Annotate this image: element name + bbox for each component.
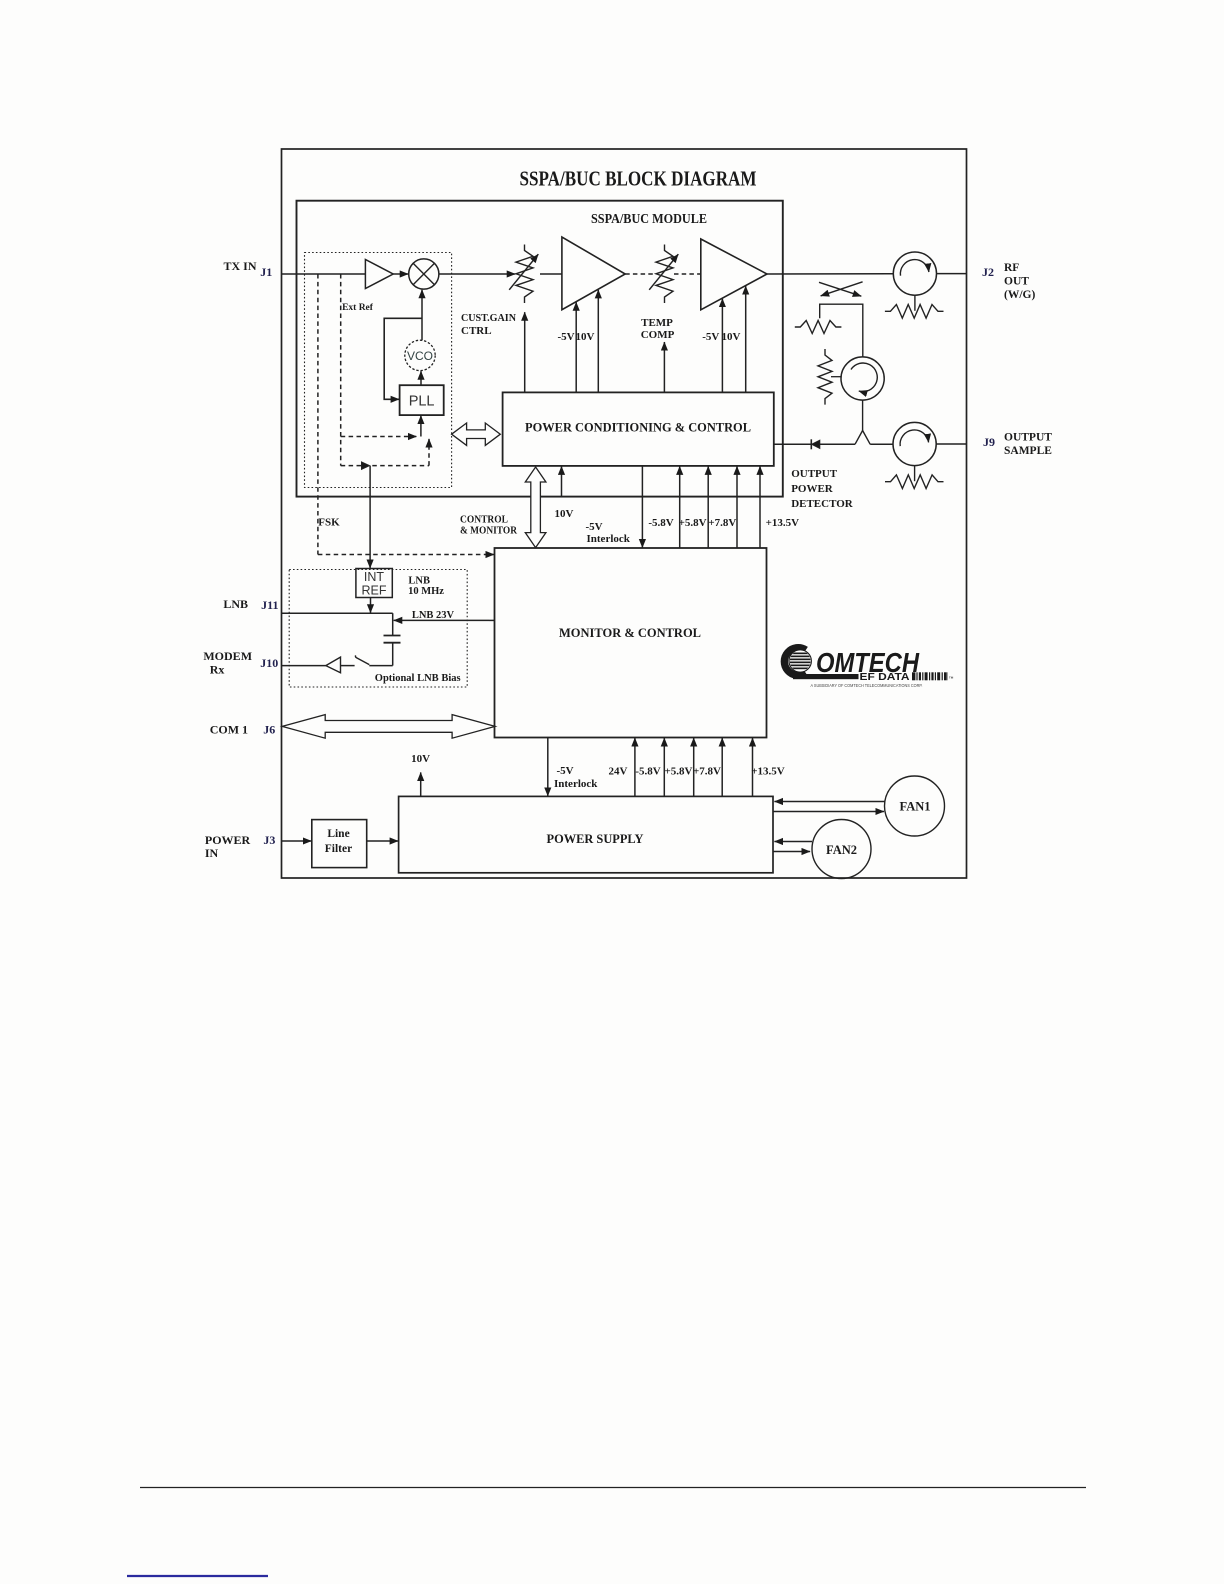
svg-text:& MONITOR: & MONITOR [460, 525, 518, 537]
svg-text:J10: J10 [260, 656, 278, 670]
svg-text:PLL: PLL [409, 394, 435, 410]
svg-text:J1: J1 [260, 265, 272, 279]
svg-text:OUTPUT: OUTPUT [1004, 432, 1052, 444]
svg-text:J2: J2 [982, 265, 994, 279]
svg-text:POWER: POWER [791, 483, 834, 495]
svg-text:REF: REF [362, 584, 387, 598]
svg-text:(W/G): (W/G) [1004, 289, 1035, 301]
svg-text:+5.8V: +5.8V [665, 766, 693, 778]
svg-text:TEMP: TEMP [641, 317, 673, 329]
svg-text:OUT: OUT [1004, 276, 1029, 288]
svg-text:SSPA/BUC MODULE: SSPA/BUC MODULE [591, 211, 707, 226]
svg-text:Rx: Rx [210, 663, 225, 677]
svg-text:-5V: -5V [557, 331, 574, 343]
svg-text:-5V: -5V [556, 765, 573, 777]
svg-text:-5V: -5V [585, 521, 602, 533]
svg-text:MONITOR & CONTROL: MONITOR & CONTROL [559, 625, 701, 640]
svg-text:+5.8V: +5.8V [679, 517, 707, 529]
svg-text:Ext Ref: Ext Ref [342, 303, 374, 313]
svg-text:10V: 10V [576, 331, 595, 343]
svg-text:+13.5V: +13.5V [751, 766, 785, 778]
svg-text:EF DATA: EF DATA [860, 671, 910, 683]
svg-text:J3: J3 [263, 833, 275, 847]
svg-text:COM 1: COM 1 [210, 723, 248, 737]
svg-text:-5.8V: -5.8V [635, 766, 660, 778]
svg-text:TX IN: TX IN [223, 259, 256, 273]
svg-text:10V: 10V [722, 331, 741, 343]
svg-text:Filter: Filter [325, 843, 352, 855]
svg-text:10V: 10V [555, 508, 574, 520]
svg-text:LNB: LNB [223, 597, 248, 611]
svg-text:+7.8V: +7.8V [708, 517, 736, 529]
svg-text:J11: J11 [261, 598, 278, 612]
svg-text:MODEM: MODEM [203, 649, 252, 663]
svg-text:IN: IN [205, 846, 219, 860]
svg-text:VCO: VCO [407, 349, 433, 363]
svg-text:™: ™ [949, 676, 954, 682]
svg-text:10 MHz: 10 MHz [408, 586, 444, 597]
svg-text:Interlock: Interlock [587, 533, 631, 545]
svg-text:POWER CONDITIONING & CONTROL: POWER CONDITIONING & CONTROL [525, 420, 751, 435]
svg-text:+7.8V: +7.8V [693, 766, 721, 778]
svg-text:10V: 10V [411, 753, 430, 765]
svg-text:DETECTOR: DETECTOR [791, 498, 854, 510]
svg-text:Interlock: Interlock [554, 778, 598, 790]
svg-text:J6: J6 [263, 723, 275, 737]
svg-text:SSPA/BUC BLOCK DIAGRAM: SSPA/BUC BLOCK DIAGRAM [520, 167, 757, 191]
svg-text:RF: RF [1004, 262, 1019, 274]
svg-text:A SUBSIDIARY OF COMTECH TELECO: A SUBSIDIARY OF COMTECH TELECOMMUNICATIO… [811, 683, 923, 688]
svg-text:POWER SUPPLY: POWER SUPPLY [547, 831, 645, 846]
svg-text:24V: 24V [609, 766, 628, 778]
svg-text:-5.8V: -5.8V [648, 517, 673, 529]
svg-text:COMP: COMP [641, 329, 675, 341]
svg-text:LNB 23V: LNB 23V [412, 610, 455, 621]
svg-text:Line: Line [327, 828, 349, 840]
svg-text:FAN1: FAN1 [899, 800, 930, 814]
svg-text:CUST.GAIN: CUST.GAIN [461, 312, 516, 324]
svg-text:CTRL: CTRL [461, 325, 492, 337]
svg-text:POWER: POWER [205, 833, 251, 847]
svg-text:SAMPLE: SAMPLE [1004, 445, 1052, 457]
svg-text:-5V: -5V [702, 331, 719, 343]
svg-text:OUTPUT: OUTPUT [791, 468, 838, 480]
svg-text:Optional LNB Bias: Optional LNB Bias [375, 673, 461, 684]
svg-text:FAN2: FAN2 [826, 843, 857, 857]
svg-text:INT: INT [364, 570, 385, 584]
svg-text:J9: J9 [983, 435, 995, 449]
svg-text:+13.5V: +13.5V [766, 517, 800, 529]
svg-text:FSK: FSK [318, 517, 340, 529]
svg-text:LNB: LNB [408, 576, 430, 587]
